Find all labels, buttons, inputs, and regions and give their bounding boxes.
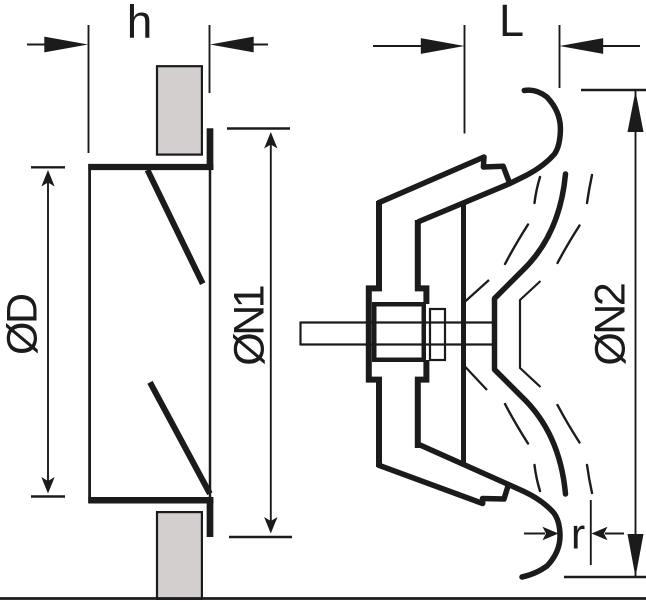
valve spindle end cap	[299, 322, 301, 346]
hub outer wall left	[369, 201, 379, 467]
duct top flange lip	[207, 128, 214, 169]
dimension L extension line right	[559, 25, 561, 88]
dash segment D4	[558, 226, 580, 264]
damper blade top	[148, 170, 203, 284]
dimension h extension line right	[209, 25, 211, 93]
svg-text:L: L	[499, 0, 524, 46]
dimension OD arrow up	[41, 170, 54, 187]
cone top inner surface	[418, 184, 510, 223]
dimension ON2 tick top	[581, 89, 646, 91]
dimension L line right segment with arrow	[600, 45, 640, 47]
open position outline hexagon	[520, 281, 541, 387]
dash segment D4m	[558, 405, 580, 443]
dash segment D1m	[535, 465, 541, 491]
thin diagonal upper from centre plate	[464, 280, 489, 303]
valve spindle bottom line	[301, 343, 493, 345]
dash segment D1	[535, 177, 541, 203]
cone top outer surface with notch	[378, 157, 510, 203]
duct bottom flange lip	[207, 497, 214, 537]
svg-text:r: r	[571, 511, 585, 559]
dimension ON1 arrow up	[264, 132, 277, 149]
dimension h line left segment with arrow	[27, 44, 50, 46]
dimension ON1 tick top	[227, 127, 290, 129]
cone centre plate	[461, 204, 466, 465]
dimension OD tick bottom	[31, 495, 65, 497]
dimension OD line	[47, 176, 49, 489]
damper blade bottom	[150, 382, 210, 493]
dimension h line right segment with arrow	[248, 44, 268, 46]
cone bead bottom	[509, 485, 561, 578]
hub inner wall lower	[418, 360, 427, 448]
svg-text:ØN1: ØN1	[226, 286, 274, 366]
cone bead top	[510, 90, 561, 183]
dimension ON2 tick bottom	[564, 576, 646, 578]
hub inner wall upper	[418, 220, 427, 304]
cone bottom inner surface	[418, 444, 509, 485]
thin diagonal lower from centre plate	[464, 366, 487, 391]
svg-text:h: h	[127, 0, 153, 48]
dimension L extension line left	[464, 25, 466, 134]
gasket block bottom (left view)	[157, 512, 202, 599]
dimension r line left with arrow	[524, 533, 545, 535]
dimension OD tick top	[31, 166, 65, 168]
svg-text:ØN2: ØN2	[587, 284, 635, 366]
dimension ON2 line	[635, 91, 637, 577]
dimension ON1 tick bottom	[229, 536, 292, 538]
duct top flange	[88, 164, 213, 170]
adjusting nut	[374, 304, 424, 360]
dimension ON1 arrow down	[264, 517, 277, 534]
dimension ON2 arrow up	[628, 91, 644, 132]
svg-text:ØD: ØD	[0, 295, 47, 355]
dimension h extension line left	[88, 25, 90, 153]
dash segment D3m	[505, 404, 528, 444]
dimension ON2 arrow down	[628, 534, 644, 577]
dash segment D2	[587, 175, 592, 203]
dash segment D2m	[587, 465, 592, 493]
dash segment D3	[505, 225, 528, 265]
baseline ground line	[0, 597, 646, 600]
cone bottom outer surface with notch	[378, 465, 509, 504]
duct body left edge	[88, 164, 91, 503]
dimension r line right with arrow	[605, 533, 624, 535]
dimension ON1 line	[270, 137, 272, 529]
dimension OD arrow down	[41, 477, 54, 494]
dimension r extension line	[590, 500, 592, 565]
nut alternate position thin rect	[430, 309, 445, 360]
duct body right edge	[209, 164, 212, 502]
cone apex plate with bends and arcs	[495, 174, 566, 494]
gasket block top (left view)	[157, 66, 202, 154]
valve spindle top line	[301, 321, 493, 323]
dimension L line left segment with arrow	[373, 45, 424, 47]
duct bottom flange	[88, 497, 213, 504]
